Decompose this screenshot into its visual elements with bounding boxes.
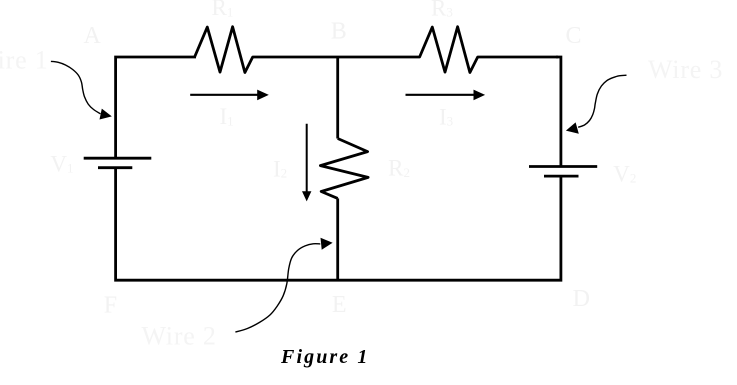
svg-text:B: B (331, 19, 347, 45)
svg-text:D: D (573, 286, 590, 312)
svg-text:A: A (84, 23, 102, 49)
svg-text:F: F (104, 293, 117, 319)
svg-text:E: E (332, 292, 347, 318)
svg-text:Wire 2: Wire 2 (142, 322, 217, 351)
svg-text:Wire 3: Wire 3 (648, 55, 723, 84)
svg-text:C: C (566, 23, 582, 49)
svg-text:Wire 1: Wire 1 (0, 45, 49, 74)
svg-text:Figure 1: Figure 1 (280, 346, 369, 368)
